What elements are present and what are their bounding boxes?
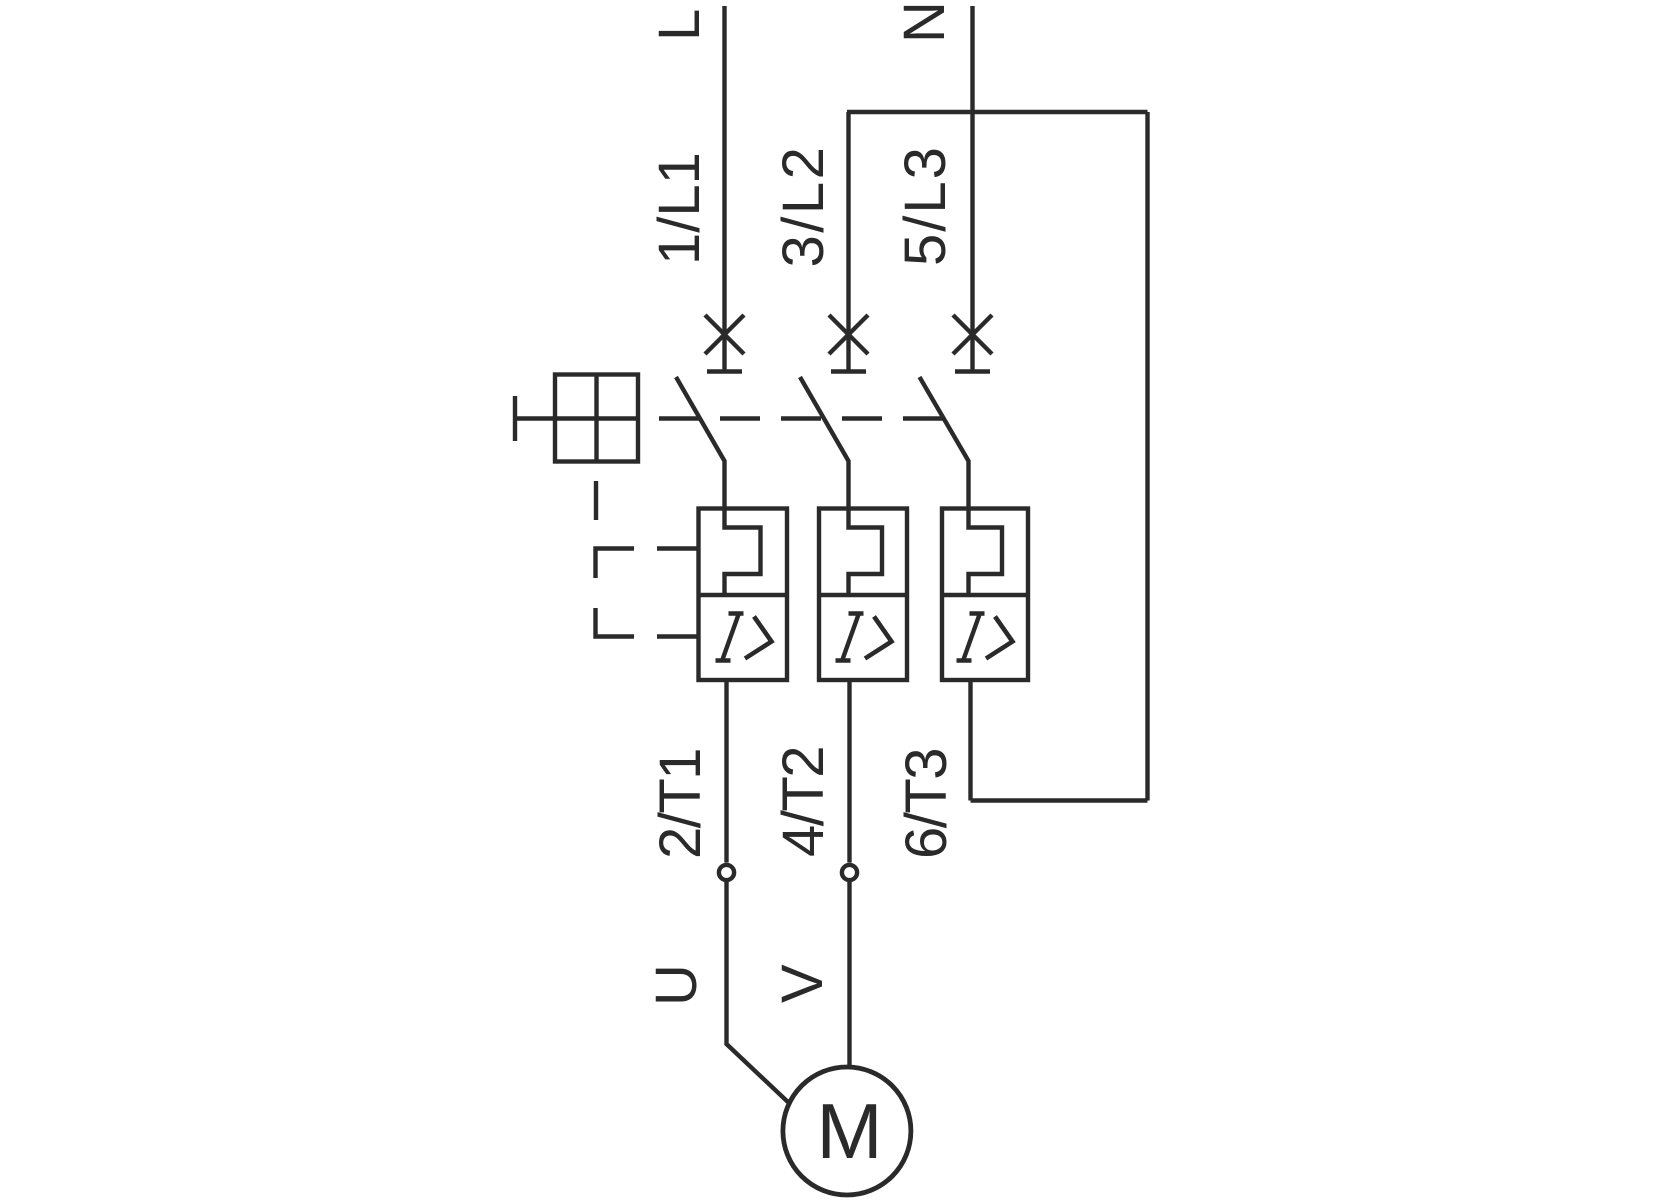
svg-text:1/L1: 1/L1	[647, 152, 712, 265]
trip linkage corner dash lower	[596, 608, 635, 637]
trip linkage corner dash upper	[596, 549, 635, 579]
wire pole 3 output	[968, 680, 972, 801]
operating mechanism handle bar	[513, 396, 517, 441]
svg-text:6/T3: 6/T3	[894, 749, 959, 859]
svg-text:5/L3: 5/L3	[893, 145, 958, 266]
magnetic trip pole 1 symbol I>	[716, 614, 772, 661]
breaker Q1 pole 3 contact cross	[953, 315, 992, 354]
breaker Q1 pole 3 switch blade	[920, 377, 969, 509]
overload relay F1 pole 1 box	[699, 509, 788, 681]
wire V to motor	[847, 880, 851, 1068]
thermal element pole 2 hook	[849, 509, 883, 596]
thermal element pole 3 hook	[969, 509, 1003, 596]
overload relay F1 pole 3 box	[942, 509, 1028, 681]
svg-text:4/T2: 4/T2	[771, 747, 836, 857]
overload relay F1 pole 3 divider	[942, 593, 1028, 597]
wire loop right vertical	[1145, 112, 1149, 801]
magnetic trip pole 2 symbol I>	[836, 614, 892, 661]
breaker Q1 pole 1 fixed contact bar	[707, 369, 742, 373]
wire pole 1 output	[724, 680, 728, 863]
svg-text:M: M	[816, 1088, 882, 1175]
trip linkage dash to thermal section	[657, 546, 697, 550]
wire N supply	[970, 6, 974, 374]
wire L supply	[722, 6, 726, 374]
breaker Q1 pole 2 switch blade	[800, 377, 849, 509]
wire U to motor	[727, 880, 790, 1104]
svg-text:U: U	[644, 964, 709, 1006]
mechanical linkage dashed line	[659, 416, 944, 420]
wire pole 2 output	[847, 680, 851, 863]
overload relay F1 pole 2 divider	[819, 593, 907, 597]
terminal circle pole 2	[842, 865, 857, 880]
wire bridge top (6/T3 loop to 3/L2)	[847, 110, 1148, 114]
breaker Q1 pole 2 fixed contact bar	[831, 369, 866, 373]
svg-text:N: N	[892, 1, 957, 43]
magnetic trip pole 3 symbol I>	[957, 614, 1013, 661]
motor M1 circle	[783, 1067, 911, 1195]
breaker Q1 pole 1 switch blade	[676, 377, 725, 509]
trip linkage dash to magnetic section	[657, 634, 697, 638]
overload relay F1 pole 2 box	[819, 509, 907, 681]
operating mechanism handle link	[515, 416, 555, 420]
breaker Q1 pole 1 contact cross	[705, 315, 744, 354]
breaker Q1 pole 2 contact cross	[829, 315, 868, 354]
operating mechanism box cross	[555, 375, 638, 462]
wire pole 2 input drop	[846, 112, 850, 374]
svg-text:L: L	[647, 9, 712, 41]
thermal element pole 1 hook	[725, 509, 761, 596]
breaker Q1 pole 3 fixed contact bar	[955, 369, 990, 373]
wire loop bottom horizontal	[971, 798, 1148, 802]
terminal circle pole 1	[719, 865, 734, 880]
operating mechanism box	[555, 375, 638, 462]
overload relay F1 pole 1 divider	[699, 593, 788, 597]
trip linkage dash vertical below box	[594, 481, 598, 520]
svg-text:3/L2: 3/L2	[771, 145, 836, 268]
svg-text:V: V	[770, 964, 835, 1003]
svg-text:2/T1: 2/T1	[648, 749, 713, 859]
